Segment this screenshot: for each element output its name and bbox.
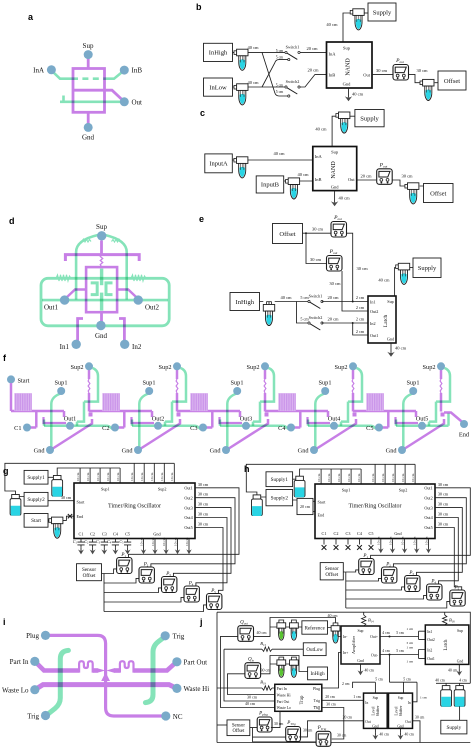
port Sup1 cell2 bbox=[145, 387, 153, 395]
wire B19 row to Part In bbox=[217, 687, 275, 689]
svg-text:Out1: Out1 bbox=[184, 486, 192, 491]
block LevelShifter1 bbox=[364, 693, 388, 728]
wires sensor fan h bbox=[343, 572, 346, 608]
svg-text:2 cm: 2 cm bbox=[356, 316, 365, 321]
svg-text:Part In: Part In bbox=[10, 658, 29, 666]
gauges g bbox=[117, 558, 132, 574]
svg-text:Out5: Out5 bbox=[416, 415, 429, 422]
wires oscillator outputs g bbox=[129, 488, 240, 558]
port End bbox=[460, 420, 468, 428]
squiggle Sup stem bbox=[100, 255, 102, 268]
gauge Qout bbox=[238, 626, 254, 642]
box Offset e bbox=[273, 224, 303, 244]
svg-text:Supply: Supply bbox=[360, 115, 379, 122]
svg-text:30 cm: 30 cm bbox=[310, 257, 322, 262]
svg-text:10 cm: 10 cm bbox=[381, 473, 385, 482]
wire Sup2 stubs g bbox=[133, 463, 135, 483]
svg-text:Offset: Offset bbox=[279, 231, 295, 238]
svg-text:30 cm: 30 cm bbox=[198, 492, 209, 497]
pipette InHigh bbox=[234, 49, 248, 70]
port In1 bbox=[72, 340, 81, 349]
serpentine left (thin) bbox=[79, 661, 93, 672]
svg-text:30 cm: 30 cm bbox=[438, 522, 449, 527]
pipette pair B cyan bbox=[290, 657, 299, 677]
svg-text:In1: In1 bbox=[60, 343, 70, 351]
port Out2 bbox=[154, 422, 162, 430]
svg-text:Waste Hi: Waste Hi bbox=[277, 693, 291, 697]
wire Sup2 green hook cell5 bbox=[429, 368, 450, 426]
box Supply2 h bbox=[266, 490, 293, 506]
valve center column top (green) bbox=[100, 269, 103, 286]
channel Out line (green) bbox=[42, 299, 168, 302]
svg-text:40 cm: 40 cm bbox=[297, 172, 309, 177]
port Out1 bbox=[60, 295, 69, 304]
ground LS2 bbox=[400, 728, 402, 732]
svg-text:40 cm: 40 cm bbox=[395, 346, 407, 351]
svg-text:10 cm: 10 cm bbox=[185, 537, 189, 546]
svg-text:Trig: Trig bbox=[314, 706, 321, 710]
svg-text:1 cm: 1 cm bbox=[406, 627, 413, 631]
wire NAND Gnd stub c bbox=[334, 191, 336, 199]
capacitors below oscillator g bbox=[77, 539, 84, 548]
svg-text:5 cm: 5 cm bbox=[396, 649, 404, 653]
svg-text:Out3: Out3 bbox=[184, 505, 192, 510]
svg-text:Sup1: Sup1 bbox=[319, 380, 332, 387]
pipette Offset b bbox=[420, 79, 434, 100]
pipette InputA bbox=[234, 157, 248, 178]
svg-text:Sup: Sup bbox=[457, 629, 463, 633]
gauges h bbox=[359, 559, 374, 575]
svg-text:InHigh: InHigh bbox=[236, 299, 255, 306]
svg-text:NAND: NAND bbox=[331, 161, 337, 179]
vial g left bbox=[10, 495, 21, 516]
svg-text:Sup2: Sup2 bbox=[423, 364, 436, 371]
serpentine right (thin) bbox=[120, 661, 134, 672]
wire Out1 branch (purple) bbox=[66, 290, 87, 299]
pipette Reference bbox=[331, 623, 340, 643]
wire Sup2 green hook cell4 bbox=[341, 368, 362, 426]
svg-text:Supply1: Supply1 bbox=[271, 477, 289, 483]
port Trig left bbox=[41, 711, 50, 720]
svg-text:10 cm: 10 cm bbox=[96, 472, 100, 481]
svg-text:Gnd: Gnd bbox=[394, 531, 402, 536]
svg-text:20 cm: 20 cm bbox=[360, 173, 372, 178]
wire Supply2 bus h bbox=[246, 464, 415, 497]
channel Waste (purple thick) bbox=[36, 685, 176, 689]
svg-text:In2: In2 bbox=[427, 648, 432, 652]
svg-text:Qin: Qin bbox=[248, 657, 255, 662]
svg-text:Out1: Out1 bbox=[427, 657, 435, 661]
svg-text:Gnd: Gnd bbox=[122, 448, 134, 455]
svg-text:In-: In- bbox=[343, 635, 348, 639]
block NAND c bbox=[313, 147, 357, 191]
svg-text:30 cm: 30 cm bbox=[312, 227, 324, 232]
wire In2 stem (purple) bbox=[119, 319, 124, 342]
port Start bbox=[7, 375, 15, 383]
svg-text:10 cm: 10 cm bbox=[377, 536, 381, 545]
port Sup d bbox=[97, 231, 106, 240]
svg-text:30 cm: 30 cm bbox=[438, 502, 449, 507]
box Offset b bbox=[438, 71, 466, 90]
svg-text:30 cm: 30 cm bbox=[274, 722, 283, 726]
box Supply j bbox=[441, 720, 467, 734]
wire NAND Gnd stub bbox=[348, 88, 350, 94]
svg-text:5 cm: 5 cm bbox=[276, 55, 284, 59]
wire LS bus bbox=[375, 682, 417, 702]
svg-text:40 cm: 40 cm bbox=[273, 151, 285, 156]
wire Start box to End pin bbox=[48, 516, 74, 520]
ground b bbox=[345, 94, 352, 101]
box OutLow bbox=[303, 643, 326, 656]
wire Sup2 purple stem cell3 bbox=[264, 370, 267, 380]
svg-text:Gnd: Gnd bbox=[357, 659, 364, 663]
svg-text:Out5: Out5 bbox=[424, 525, 432, 530]
svg-text:Gnd: Gnd bbox=[331, 185, 339, 190]
svg-text:C3: C3 bbox=[190, 425, 197, 432]
svg-text:C3: C3 bbox=[102, 531, 107, 536]
svg-text:Waste Lo: Waste Lo bbox=[277, 706, 291, 710]
svg-text:Offset: Offset bbox=[430, 190, 446, 197]
block oscillator g bbox=[74, 483, 195, 539]
box InLow bbox=[204, 78, 233, 96]
pipette InLow bbox=[234, 84, 248, 105]
svg-text:Gnd: Gnd bbox=[457, 660, 464, 664]
svg-text:h: h bbox=[244, 464, 250, 474]
svg-text:In: In bbox=[365, 701, 368, 705]
serpentine block 3 bbox=[190, 393, 208, 411]
svg-text:InLow: InLow bbox=[209, 84, 227, 91]
svg-text:30 cm: 30 cm bbox=[303, 729, 312, 733]
svg-text:30 cm: 30 cm bbox=[326, 702, 335, 706]
svg-text:20 cm: 20 cm bbox=[300, 504, 311, 509]
svg-text:InHigh: InHigh bbox=[310, 672, 325, 677]
wire gauge to Offset c bbox=[392, 180, 423, 186]
port Out bbox=[120, 97, 129, 106]
wire crossover InHigh branch bbox=[262, 52, 288, 96]
box Sensor Offset g bbox=[77, 564, 102, 581]
wire cell3 purple feed bbox=[177, 411, 240, 428]
wire bottom bus j bbox=[217, 742, 470, 744]
box Supply1 h bbox=[266, 472, 293, 487]
wire green stub left of Out cell2 bbox=[131, 420, 134, 426]
svg-text:Sup2: Sup2 bbox=[335, 364, 348, 371]
wire Out green cell2 bbox=[132, 426, 201, 430]
svg-text:Out1: Out1 bbox=[424, 486, 432, 491]
gauge Qin bbox=[245, 663, 261, 679]
svg-text:10 cm: 10 cm bbox=[162, 537, 166, 546]
svg-text:Offset: Offset bbox=[444, 78, 460, 85]
svg-text:20 cm: 20 cm bbox=[306, 46, 318, 51]
svg-text:Sup2: Sup2 bbox=[71, 364, 84, 371]
ground c bbox=[331, 199, 338, 206]
svg-text:Sup2: Sup2 bbox=[158, 487, 167, 492]
wire Out green cell3 bbox=[220, 426, 289, 430]
svg-text:Gnd: Gnd bbox=[95, 332, 108, 340]
svg-text:In1: In1 bbox=[370, 299, 376, 304]
svg-text:Supply: Supply bbox=[373, 9, 392, 16]
svg-text:Sup2: Sup2 bbox=[247, 364, 260, 371]
svg-text:Level: Level bbox=[372, 707, 376, 716]
svg-text:5 cm: 5 cm bbox=[375, 678, 383, 682]
svg-text:1 cm: 1 cm bbox=[406, 660, 413, 664]
port Sup2 cell2 bbox=[173, 362, 181, 370]
svg-text:10 cm: 10 cm bbox=[140, 472, 144, 481]
svg-text:Start: Start bbox=[318, 499, 327, 504]
valve X g bbox=[68, 514, 72, 518]
svg-text:Shifter: Shifter bbox=[399, 705, 403, 716]
port Gnd bbox=[84, 123, 93, 132]
serpentine block 1 bbox=[14, 393, 32, 411]
wire Sup1 stubs g bbox=[79, 468, 81, 483]
svg-text:C2: C2 bbox=[334, 531, 339, 536]
svg-text:10 cm: 10 cm bbox=[130, 472, 134, 481]
svg-text:P2: P2 bbox=[385, 563, 391, 568]
svg-text:NAND: NAND bbox=[345, 58, 351, 76]
box InHigh j bbox=[308, 667, 328, 680]
wire Out2 branch (purple) bbox=[117, 290, 138, 299]
svg-text:InB: InB bbox=[329, 72, 336, 77]
pipette pair A green bbox=[277, 620, 286, 640]
box Supply1 g bbox=[24, 470, 48, 484]
svg-text:Trig: Trig bbox=[27, 712, 39, 720]
svg-text:Out: Out bbox=[132, 99, 143, 107]
svg-text:10 cm: 10 cm bbox=[424, 536, 428, 545]
wire Out green cell4 bbox=[308, 426, 377, 430]
wire gauge to Offset b bbox=[409, 74, 439, 82]
block Trap bbox=[275, 684, 322, 711]
vial j 1 bbox=[441, 686, 452, 707]
wire Gnd diagonal cell2 bbox=[140, 419, 180, 449]
svg-text:10 cm: 10 cm bbox=[357, 473, 361, 482]
ground Amp bbox=[360, 664, 362, 668]
wire top bus j bbox=[217, 612, 470, 683]
svg-text:C4: C4 bbox=[278, 425, 286, 432]
svg-text:40 cm: 40 cm bbox=[247, 80, 259, 85]
block LevelShifter2 bbox=[389, 693, 413, 728]
port Out3 bbox=[242, 422, 250, 430]
svg-text:10 cm: 10 cm bbox=[371, 473, 375, 482]
svg-text:C5: C5 bbox=[125, 531, 130, 536]
box Sensor Offset h bbox=[320, 563, 343, 580]
small purple pad cell1 bbox=[89, 413, 93, 417]
block oscillator h bbox=[315, 484, 435, 539]
svg-text:Out2: Out2 bbox=[152, 415, 165, 422]
svg-text:20 cm: 20 cm bbox=[343, 716, 352, 720]
gauge PbarTrig bbox=[316, 731, 331, 746]
gauge PTrig bbox=[286, 727, 301, 742]
svg-text:Trig: Trig bbox=[173, 633, 185, 641]
svg-text:Sup: Sup bbox=[343, 46, 351, 51]
svg-text:Sup1: Sup1 bbox=[55, 380, 68, 387]
svg-text:30 cm: 30 cm bbox=[357, 266, 369, 271]
switch Switch2 bbox=[285, 79, 300, 94]
svg-text:Out2: Out2 bbox=[427, 638, 435, 642]
svg-text:P3: P3 bbox=[165, 572, 171, 577]
wire Sup2 green hook cell1 bbox=[77, 368, 98, 426]
svg-text:1 cm: 1 cm bbox=[420, 696, 427, 700]
wire Gnd diagonal cell4 bbox=[316, 419, 356, 449]
svg-text:i: i bbox=[3, 617, 6, 627]
svg-text:5 cm: 5 cm bbox=[276, 90, 284, 94]
svg-text:Start: Start bbox=[31, 518, 41, 524]
channel Plug to NC (purple) bbox=[49, 635, 163, 716]
port Gnd cell5 bbox=[398, 446, 406, 454]
port Trig right bbox=[161, 631, 170, 640]
block Latch j bbox=[425, 625, 469, 664]
svg-text:Sup: Sup bbox=[331, 149, 339, 154]
svg-text:Out4: Out4 bbox=[328, 415, 341, 422]
port C4 bbox=[287, 424, 295, 432]
svg-text:2 cm: 2 cm bbox=[356, 305, 365, 310]
resistor B18 (vertical) bbox=[444, 612, 446, 615]
svg-text:In1: In1 bbox=[427, 630, 432, 634]
wire vial to Supply j bbox=[459, 706, 461, 720]
wire Sup1 green stem cell2 bbox=[139, 394, 148, 449]
pipette Supply b bbox=[350, 9, 364, 30]
wire cell2 purple feed bbox=[89, 411, 152, 428]
wire InHigh to switch1 e bbox=[260, 301, 309, 303]
svg-text:d: d bbox=[9, 216, 15, 226]
svg-text:30 cm: 30 cm bbox=[337, 734, 346, 738]
svg-text:Out-: Out- bbox=[371, 654, 379, 658]
wire Sup2 purple stem cell4 bbox=[352, 370, 355, 380]
svg-text:g: g bbox=[3, 466, 9, 476]
wire switch2 to In2 junction bbox=[322, 322, 368, 324]
svg-text:Out3: Out3 bbox=[424, 505, 432, 510]
wire In1 stem (purple) bbox=[78, 319, 83, 342]
svg-text:40 cm: 40 cm bbox=[328, 613, 339, 618]
ground LS1 bbox=[374, 728, 376, 732]
svg-text:Sup: Sup bbox=[398, 696, 404, 700]
port Gnd cell4 bbox=[310, 446, 318, 454]
svg-text:In2: In2 bbox=[370, 321, 376, 326]
svg-text:10 cm: 10 cm bbox=[327, 473, 331, 482]
port Sup2 cell1 bbox=[85, 362, 93, 370]
serpentine block 2 bbox=[102, 393, 120, 411]
wire Sup2 purple stem cell2 bbox=[176, 370, 179, 380]
wire switch1 to NAND InA bbox=[300, 51, 327, 53]
svg-text:Latch: Latch bbox=[383, 314, 389, 327]
wire Qout to Reference chain bbox=[253, 618, 335, 637]
box InputB bbox=[256, 176, 284, 193]
svg-text:Sensor: Sensor bbox=[232, 724, 245, 729]
wire green stub left of Out cell5 bbox=[395, 420, 398, 426]
svg-text:Gnd: Gnd bbox=[386, 448, 398, 455]
svg-text:30 cm: 30 cm bbox=[247, 695, 258, 700]
svg-text:10 cm: 10 cm bbox=[173, 537, 177, 546]
wire purple spur cell5 bbox=[396, 417, 419, 423]
svg-text:Out1: Out1 bbox=[370, 333, 378, 338]
svg-text:Out4: Out4 bbox=[424, 515, 433, 520]
svg-text:10 cm: 10 cm bbox=[391, 473, 395, 482]
box Supply b bbox=[368, 3, 396, 21]
port Sup2 cell3 bbox=[261, 362, 269, 370]
svg-text:P1: P1 bbox=[362, 554, 368, 559]
svg-text:Sup1: Sup1 bbox=[231, 380, 244, 387]
svg-text:40 cm: 40 cm bbox=[378, 278, 390, 283]
port Gnd d bbox=[96, 321, 105, 330]
svg-text:10 cm: 10 cm bbox=[116, 472, 120, 481]
wire Supply1 bus h bbox=[293, 469, 362, 479]
wire NAND Out to gauge c bbox=[357, 179, 377, 181]
svg-text:30 cm: 30 cm bbox=[198, 522, 209, 527]
svg-text:30 cm: 30 cm bbox=[438, 512, 449, 517]
svg-text:In2: In2 bbox=[132, 343, 142, 351]
svg-text:30 cm: 30 cm bbox=[198, 512, 209, 517]
block NAND b bbox=[327, 42, 373, 88]
svg-text:40 cm: 40 cm bbox=[315, 127, 327, 132]
valve body d (purple rect) bbox=[86, 267, 117, 312]
pipette InputB bbox=[286, 178, 300, 199]
svg-text:40 cm: 40 cm bbox=[435, 678, 444, 682]
svg-text:b: b bbox=[196, 2, 202, 12]
ground e bbox=[387, 350, 394, 357]
svg-text:2 cm: 2 cm bbox=[342, 682, 350, 686]
svg-text:Supply2: Supply2 bbox=[271, 495, 289, 501]
svg-text:Trig: Trig bbox=[314, 699, 321, 703]
svg-text:30 cm: 30 cm bbox=[401, 173, 413, 178]
svg-text:Supply: Supply bbox=[418, 265, 437, 272]
svg-text:30 cm: 30 cm bbox=[415, 715, 424, 719]
svg-text:10 cm: 10 cm bbox=[170, 472, 174, 481]
port Gnd cell3 bbox=[222, 446, 230, 454]
port Gnd cell1 bbox=[46, 446, 54, 454]
svg-text:2 cm: 2 cm bbox=[356, 295, 365, 300]
svg-text:40 cm: 40 cm bbox=[245, 701, 256, 706]
svg-text:40 cm: 40 cm bbox=[405, 733, 414, 737]
svg-text:Out: Out bbox=[363, 72, 370, 77]
svg-text:End: End bbox=[77, 514, 85, 519]
svg-text:10 cm: 10 cm bbox=[160, 472, 164, 481]
block Amplifier bbox=[341, 626, 380, 664]
svg-text:Sup2: Sup2 bbox=[159, 364, 172, 371]
wire Qin to InHigh chain bbox=[260, 656, 307, 674]
pipette pair B green bbox=[277, 657, 286, 677]
wire OutLow row bbox=[224, 648, 303, 650]
svg-text:Latch: Latch bbox=[444, 639, 449, 651]
svg-text:5 cm: 5 cm bbox=[403, 678, 411, 682]
svg-text:Offset: Offset bbox=[325, 571, 338, 578]
svg-text:Switch1: Switch1 bbox=[286, 44, 300, 49]
small purple pad cell2 bbox=[177, 413, 181, 417]
svg-text:InA: InA bbox=[315, 154, 323, 159]
wire Supply2 bus g bbox=[5, 463, 174, 496]
svg-text:10 cm: 10 cm bbox=[401, 473, 405, 482]
valve center column bottom (green) bbox=[100, 293, 103, 311]
channel Part (purple thick) bbox=[36, 663, 79, 671]
svg-text:Start: Start bbox=[18, 377, 30, 384]
box Supply e bbox=[413, 258, 441, 278]
svg-text:C1: C1 bbox=[14, 425, 21, 432]
svg-text:40 cm: 40 cm bbox=[280, 295, 292, 300]
svg-text:Out2: Out2 bbox=[145, 304, 160, 312]
port InA bbox=[47, 65, 56, 74]
box Supply c bbox=[355, 110, 384, 127]
svg-text:Out2: Out2 bbox=[184, 495, 192, 500]
svg-text:Supply: Supply bbox=[446, 725, 461, 731]
box 20cm loop h bbox=[297, 498, 313, 514]
svg-text:C2: C2 bbox=[102, 425, 109, 432]
svg-text:30 cm: 30 cm bbox=[198, 502, 209, 507]
wire crossover InLow branch bbox=[262, 60, 288, 87]
svg-text:30 cm: 30 cm bbox=[198, 482, 209, 487]
svg-text:Out2: Out2 bbox=[424, 495, 432, 500]
wire Supply to Latch Sup bbox=[395, 268, 399, 297]
wire Sup1 green stem cell1 bbox=[51, 394, 60, 449]
svg-text:Gnd: Gnd bbox=[372, 724, 378, 728]
svg-text:Offset: Offset bbox=[83, 572, 96, 579]
port Sup1 cell1 bbox=[57, 387, 65, 395]
